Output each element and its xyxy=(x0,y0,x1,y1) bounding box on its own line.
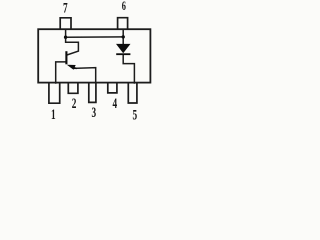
svg-text:1: 1 xyxy=(51,106,56,123)
svg-text:4: 4 xyxy=(112,95,117,112)
svg-text:5: 5 xyxy=(132,106,137,123)
svg-text:2: 2 xyxy=(72,95,77,112)
svg-text:6: 6 xyxy=(122,0,127,14)
svg-text:3: 3 xyxy=(91,104,96,121)
svg-text:7: 7 xyxy=(63,0,68,16)
